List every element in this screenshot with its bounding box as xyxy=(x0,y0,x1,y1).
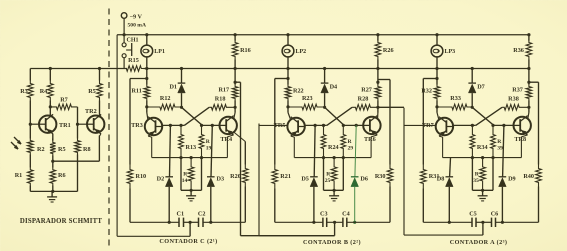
svg-text:LP3: LP3 xyxy=(445,49,456,55)
svg-text:500 mA: 500 mA xyxy=(128,23,147,29)
svg-text:C4: C4 xyxy=(342,211,350,218)
svg-text:R21: R21 xyxy=(280,173,291,180)
svg-text:R10: R10 xyxy=(136,173,147,180)
svg-text:D1: D1 xyxy=(169,84,177,91)
svg-text:CONTADOR B (2²): CONTADOR B (2²) xyxy=(303,239,361,246)
svg-text:R2: R2 xyxy=(37,146,45,153)
svg-text:35: 35 xyxy=(473,178,479,184)
svg-text:R5: R5 xyxy=(58,146,66,153)
svg-text:R38: R38 xyxy=(508,96,519,103)
svg-text:DISPARADOR SCHMITT: DISPARADOR SCHMITT xyxy=(20,218,102,225)
svg-text:R34: R34 xyxy=(477,144,488,151)
svg-text:D3: D3 xyxy=(217,176,225,183)
svg-text:R20: R20 xyxy=(230,173,241,180)
svg-text:R26: R26 xyxy=(383,47,394,54)
svg-text:D8: D8 xyxy=(437,176,445,183)
svg-text:TR1: TR1 xyxy=(59,122,71,129)
svg-text:R30: R30 xyxy=(375,173,386,180)
svg-text:D7: D7 xyxy=(477,84,485,91)
svg-text:C6: C6 xyxy=(491,211,499,218)
svg-text:R3: R3 xyxy=(20,88,28,95)
svg-text:D9: D9 xyxy=(508,176,516,183)
svg-text:C3: C3 xyxy=(320,211,328,218)
svg-text:R40: R40 xyxy=(523,173,534,180)
svg-text:D5: D5 xyxy=(301,176,309,183)
svg-text:R5: R5 xyxy=(88,88,96,95)
svg-text:R24: R24 xyxy=(328,144,339,151)
svg-text:R1: R1 xyxy=(15,172,23,179)
svg-text:R13: R13 xyxy=(186,144,197,151)
svg-text:TR4: TR4 xyxy=(220,136,232,143)
svg-text:R37: R37 xyxy=(512,87,523,94)
svg-text:39: 39 xyxy=(497,145,503,151)
svg-text:14: 14 xyxy=(182,178,188,184)
svg-text:R16: R16 xyxy=(240,47,251,54)
svg-text:TR2: TR2 xyxy=(85,108,97,115)
svg-text:R33: R33 xyxy=(450,95,461,102)
svg-text:LP2: LP2 xyxy=(296,49,307,55)
svg-text:R12: R12 xyxy=(160,95,171,102)
svg-text:CONTADOR C (2¹): CONTADOR C (2¹) xyxy=(159,238,217,245)
svg-text:R15: R15 xyxy=(128,57,139,64)
svg-text:R7: R7 xyxy=(60,97,68,104)
svg-text:C5: C5 xyxy=(469,211,477,218)
svg-text:R23: R23 xyxy=(302,95,313,102)
svg-text:R27: R27 xyxy=(361,87,372,94)
svg-text:R36: R36 xyxy=(513,47,524,54)
svg-text:R11: R11 xyxy=(131,88,141,95)
svg-text:25: 25 xyxy=(325,178,331,184)
svg-text:R8: R8 xyxy=(83,146,91,153)
svg-text:−9 V: −9 V xyxy=(130,14,143,21)
svg-text:TR3: TR3 xyxy=(131,122,143,129)
svg-text:R22: R22 xyxy=(293,88,304,95)
svg-text:19: 19 xyxy=(206,145,212,151)
svg-text:TR8: TR8 xyxy=(514,136,526,143)
svg-text:C1: C1 xyxy=(177,211,185,218)
svg-text:C2: C2 xyxy=(198,211,206,218)
svg-text:CH1: CH1 xyxy=(127,38,139,44)
svg-text:R18: R18 xyxy=(215,96,226,103)
svg-text:D6: D6 xyxy=(360,176,368,183)
svg-text:CONTADOR A (2³): CONTADOR A (2³) xyxy=(450,239,508,246)
svg-text:LP1: LP1 xyxy=(154,49,165,55)
svg-text:R4: R4 xyxy=(40,88,48,95)
svg-text:R6: R6 xyxy=(58,172,66,179)
svg-text:TR6: TR6 xyxy=(364,136,376,143)
svg-text:29: 29 xyxy=(348,145,354,151)
svg-text:R28: R28 xyxy=(358,96,369,103)
svg-text:R17: R17 xyxy=(218,87,229,94)
svg-text:D2: D2 xyxy=(157,176,165,183)
svg-text:D4: D4 xyxy=(330,84,338,91)
